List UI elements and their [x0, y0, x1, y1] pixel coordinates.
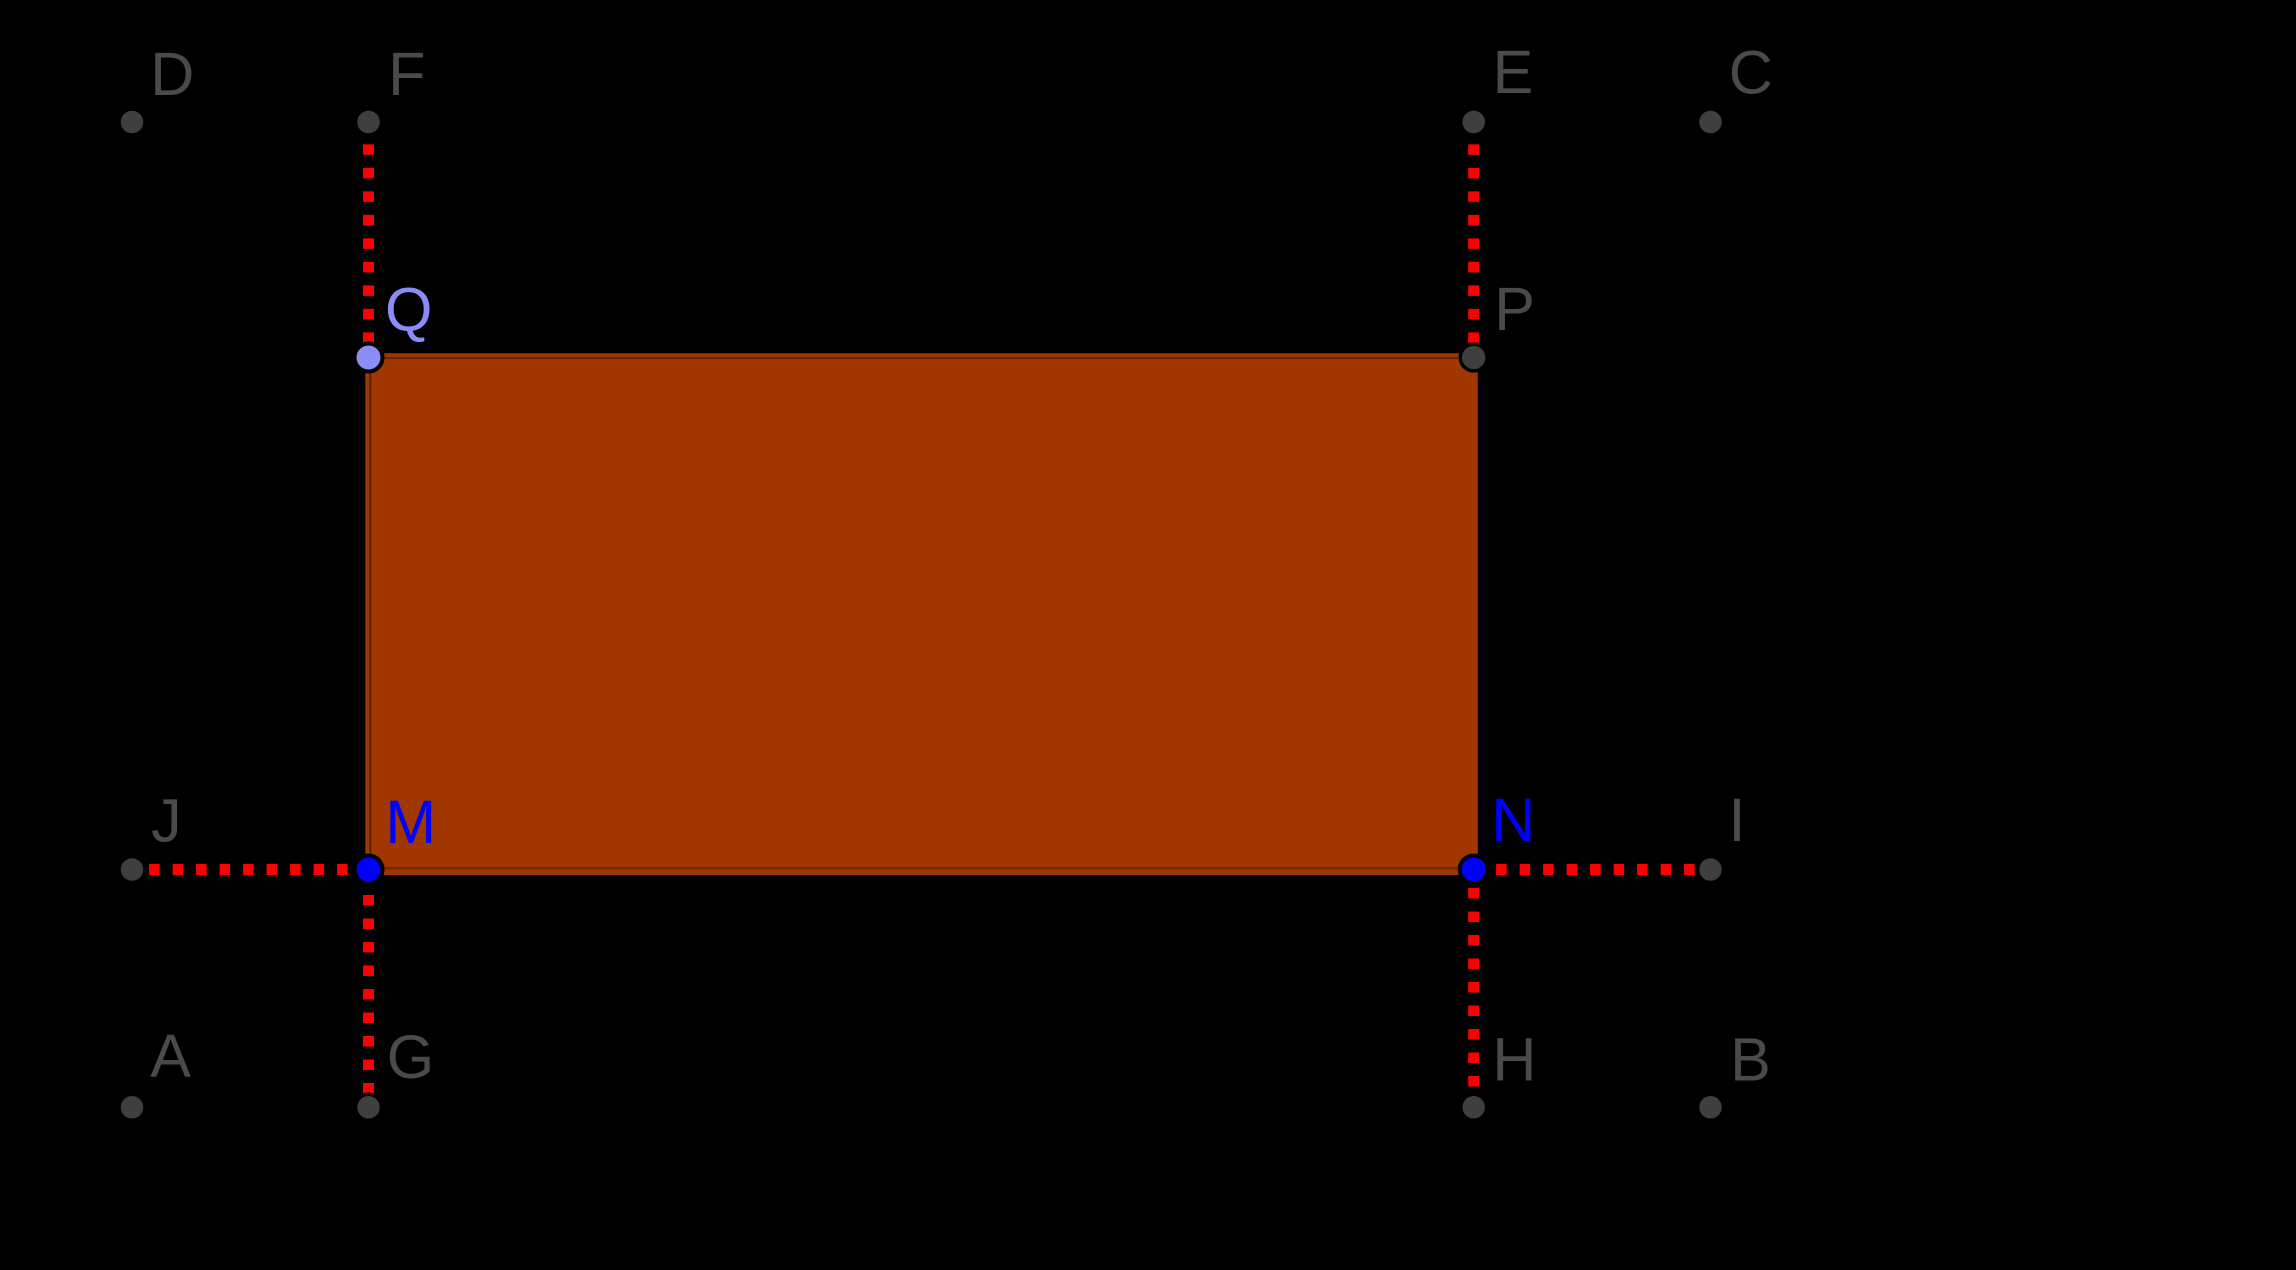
svg-text:D: D [150, 40, 194, 108]
svg-text:E: E [1493, 38, 1534, 106]
svg-text:M: M [385, 788, 436, 856]
svg-text:G: G [387, 1023, 434, 1091]
svg-text:A: A [150, 1022, 191, 1090]
svg-text:Q: Q [385, 276, 432, 344]
svg-text:P: P [1494, 275, 1535, 343]
svg-text:C: C [1729, 39, 1773, 107]
svg-text:I: I [1729, 786, 1746, 854]
svg-text:J: J [151, 787, 182, 855]
svg-text:F: F [388, 40, 425, 108]
svg-text:H: H [1492, 1026, 1536, 1094]
svg-text:N: N [1491, 786, 1535, 854]
svg-text:B: B [1730, 1026, 1771, 1094]
